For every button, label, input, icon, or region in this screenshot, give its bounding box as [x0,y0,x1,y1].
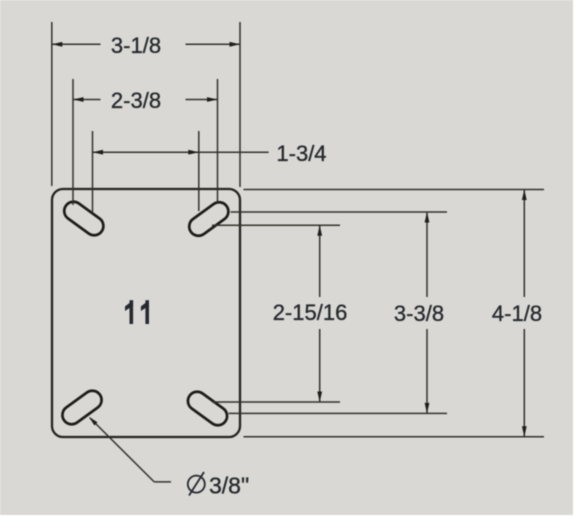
arrowhead 1-3/4 right [188,150,199,155]
extension line 3-3/8 top [231,211,447,213]
arrowhead 3-1/8 left [52,42,63,47]
arrowhead 2-3/8 right [207,97,218,102]
svg-text:3/8": 3/8" [209,473,249,499]
dimension line 2-3/8 right segment [186,99,218,101]
dimension line 2-15/16 upper segment [319,226,321,297]
slot top-right [186,199,232,240]
svg-text:3-1/8: 3-1/8 [111,33,161,58]
extension line 3-1/8 left [51,22,53,186]
dimension line 3-1/8 left segment [52,43,101,45]
dimension line 3-3/8 upper segment [426,213,428,297]
dimension line 1-3/4 with leader tail [93,151,269,153]
svg-text:3-3/8: 3-3/8 [394,301,444,326]
dimension line 2-3/8 left segment [73,99,101,101]
slot top-left [61,198,107,239]
extension line 1-3/4 right [198,131,200,211]
leader line horizontal tail [154,481,171,483]
slot bottom-left [59,387,105,428]
arrowhead 2-3/8 left [73,97,84,102]
svg-text:2-15/16: 2-15/16 [273,300,348,325]
extension line 2-3/8 left [72,79,74,205]
arrowhead 3-3/8 bottom [425,403,430,414]
extension line 2-3/8 right [217,79,219,202]
diameter symbol [188,472,205,496]
dimension line 4-1/8 lower segment [523,329,525,436]
slot bottom-right [184,388,230,429]
arrowhead 4-1/8 top [522,190,527,201]
extension line 3-1/8 right [239,22,241,187]
label plate number 11 [125,300,149,324]
plate outline [52,189,240,437]
extension line 2-15/16 top [212,224,340,226]
arrowhead 4-1/8 bottom [522,426,527,437]
arrowhead 1-3/4 left [93,150,104,155]
arrowhead 2-15/16 bottom [317,392,322,403]
extension line 2-15/16 bottom [212,401,340,403]
arrowhead 3-3/8 top [425,212,430,223]
leader line diagonal for slot diameter [90,418,154,482]
extension line 4-1/8 bottom [244,436,545,438]
arrowhead 3-1/8 right [230,42,241,47]
extension line 1-3/4 left [92,131,94,213]
dimension line 3-3/8 lower segment [426,329,428,413]
extension line 3-3/8 bottom [229,412,448,414]
dimension line 3-1/8 right segment [186,43,241,45]
dimension line 2-15/16 lower segment [319,329,321,402]
svg-text:4-1/8: 4-1/8 [492,301,542,326]
dimension line 4-1/8 upper segment [523,190,525,297]
arrowhead 2-15/16 top [317,225,322,236]
arrowhead leader tip at slot [89,417,98,426]
svg-text:1-3/4: 1-3/4 [276,141,326,166]
svg-text:2-3/8: 2-3/8 [111,88,161,113]
extension line 4-1/8 top [244,189,545,191]
